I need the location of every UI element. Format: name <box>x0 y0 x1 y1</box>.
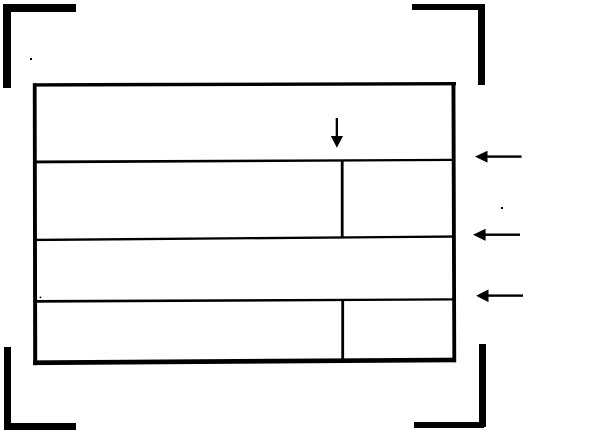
corner bracket bottom-left <box>4 347 76 430</box>
column divider upper (row 2) <box>341 160 344 238</box>
speck right of table <box>501 207 503 209</box>
down arrow <box>331 118 343 148</box>
row divider 3 <box>35 298 453 303</box>
corner bracket top-right <box>412 4 485 85</box>
left arrow 3 <box>476 289 523 302</box>
corner bracket top-left <box>3 4 76 88</box>
row divider 2 <box>35 235 453 241</box>
speck row 3 left <box>40 297 42 299</box>
row divider 1 <box>35 159 453 164</box>
column divider lower (row 4) <box>341 299 344 362</box>
left arrow 2 <box>473 229 520 241</box>
table frame <box>33 82 456 365</box>
speck upper-left <box>30 58 32 60</box>
left arrow 1 <box>475 151 522 163</box>
corner bracket bottom-right <box>414 344 486 428</box>
